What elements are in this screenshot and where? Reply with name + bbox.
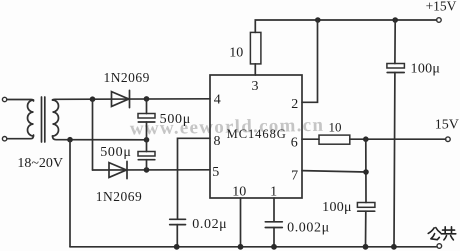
char Gong2 [441,227,456,240]
junction node E (C1/C2 midpoint) [144,137,150,143]
junction rail/C3 [391,244,397,250]
wire R2 to 15V terminal [350,138,446,140]
wire secondary bottom to node D [53,136,147,140]
wire to diode D2 [93,169,211,171]
capacitor C2 500u plates [138,152,155,157]
resistor R1 10 lead bottom [254,64,256,75]
junction node G (C3 top) [392,17,398,23]
wire IC pin 2 to +15V rail [302,20,318,102]
junction node C (D2 cathode / C2 / pin5) [144,167,150,173]
capacitor C3 long lead down to common rail [393,73,396,247]
diode D1 1N2069 (top) [112,90,130,107]
svg-text:10: 10 [329,119,342,134]
svg-text:8: 8 [214,134,221,149]
wire node A down to diode D2 row [92,99,94,170]
terminal 15V [446,137,451,142]
wire secondary top to node A [53,98,93,101]
capacitor C4 lead bottom [365,211,367,247]
junction node D (transformer bottom) [67,137,73,143]
svg-text:7: 7 [291,168,298,183]
capacitor C4 100u plates [357,203,375,208]
junction rail/C4 [363,244,369,250]
wire IC pin 8 to vertical drop [178,138,211,219]
transformer T core [42,97,45,142]
svg-text:4: 4 [214,93,221,108]
svg-text:6: 6 [291,136,298,151]
junction rail/C5 [174,244,180,250]
junction node H (R2 / C4 branch) [363,136,369,142]
capacitor C3 100u plates [387,64,405,69]
transformer T secondary winding [53,100,59,136]
input terminal J2 (bottom) [2,137,6,141]
svg-text:10: 10 [229,45,243,60]
svg-text:0.02μ: 0.02μ [192,217,227,232]
capacitor C2 lead bottom [146,160,148,170]
junction rail/pin10 [238,244,244,250]
common rail wire [70,246,437,248]
capacitor C1 lead bottom [146,122,148,140]
wire J1 to transformer primary top [7,100,34,102]
junction node B (D1 cathode / C1) [144,96,150,102]
svg-text:MC1468G: MC1468G [227,127,287,141]
svg-text:500μ: 500μ [100,145,131,160]
wire node H down through pin7 row to capacitor C4 [365,139,367,202]
svg-text:5: 5 [212,165,219,180]
capacitor C6 lead bottom [273,228,275,247]
svg-text:500μ: 500μ [160,112,191,127]
resistor R1 lead top and +15V rail wire [255,20,436,32]
terminal common [437,244,442,249]
junction node A [90,96,96,102]
label GongGong (common) drawn glyphs [428,227,456,240]
junction node I (pin7 on riser) [363,169,369,175]
input terminal J1 (top) [2,97,6,101]
capacitor C6 0.002u plates [265,222,282,228]
svg-text:+15V: +15V [426,0,457,14]
capacitor C3 100u lead top [394,20,396,64]
svg-text:0.002μ: 0.002μ [287,221,330,236]
svg-text:18~20V: 18~20V [17,156,63,171]
diode D2 1N2069 (bottom) [109,161,127,178]
wire node A to diode D1 and on to IC pin 4 [93,98,211,100]
wire IC pin 1 down to capacitor C6 [273,198,275,222]
wire IC pin 7 to node I [302,171,366,172]
capacitor C5 lead bottom [176,225,178,247]
svg-text:1N2069: 1N2069 [96,189,143,204]
svg-text:15V: 15V [435,117,459,132]
svg-text:1: 1 [270,184,277,199]
resistor R1 10 body [250,32,261,64]
resistor R2 10 body [319,135,350,144]
wire IC pin 6 to resistor R2 [302,138,319,140]
svg-text:100μ: 100μ [411,62,441,77]
IC U1 MC1468G body [210,75,302,198]
char Gong1 [428,228,440,240]
wire IC pin 10 down to common rail [240,198,242,247]
svg-text:2: 2 [291,97,298,112]
svg-text:1N2069: 1N2069 [103,70,150,85]
junction rail/C6 [271,244,277,250]
terminal +15V [437,18,442,23]
capacitor C2 500u lead top [146,140,148,152]
capacitor C1 500u plates [138,114,155,119]
transformer T primary winding [28,100,34,136]
capacitor C5 0.02u plates [170,219,186,224]
wire node D down to common rail [69,140,71,247]
svg-text:3: 3 [252,79,259,94]
wire J2 to transformer primary bottom [7,135,34,139]
junction node F (pin2 riser) [315,17,321,23]
capacitor C1 500u lead top [146,99,148,114]
svg-text:100μ: 100μ [322,200,352,215]
svg-text:10: 10 [232,184,246,199]
